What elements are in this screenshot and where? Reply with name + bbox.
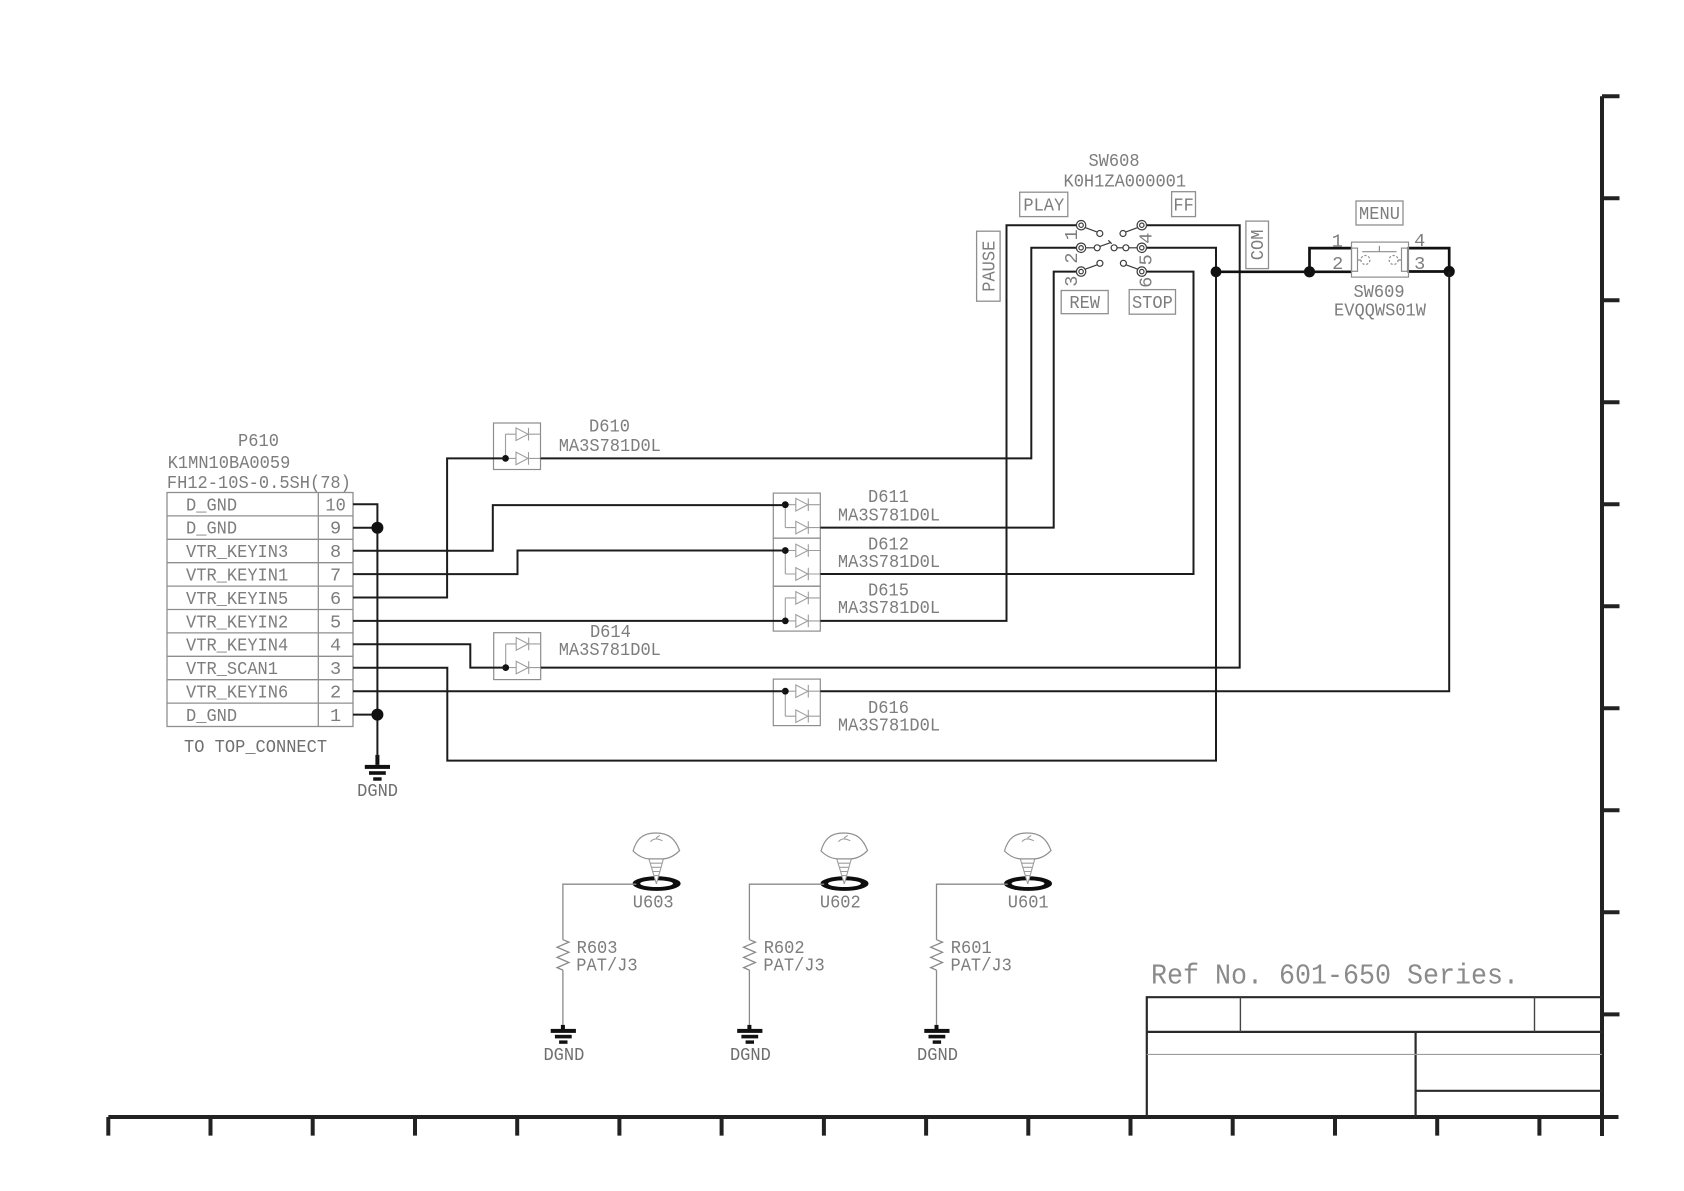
svg-text:U603: U603 (633, 893, 674, 914)
svg-text:VTR_KEYIN4: VTR_KEYIN4 (186, 636, 288, 657)
wire D610 output to SW608 row2 left (541, 248, 1077, 459)
resistor R602 PAT/J3 (744, 938, 825, 977)
svg-text:2: 2 (330, 683, 341, 704)
wire SW609 pin4 loop (1408, 248, 1450, 271)
junction node SW609 left (1304, 266, 1315, 277)
SW609 contact left (1361, 256, 1370, 265)
ground DGND below R601 (917, 1025, 958, 1066)
wire DGND trunk (376, 528, 378, 757)
border bottom tick marks (108, 1117, 1539, 1136)
wire D614 output to SW608 row1 right (541, 225, 1240, 667)
svg-text:4: 4 (1136, 233, 1157, 244)
switch SW609 body (1352, 242, 1409, 277)
label box STOP (1129, 290, 1175, 315)
wire pin1 stub (353, 714, 377, 716)
border right tick marks (1602, 96, 1620, 1014)
svg-text:TO TOP_CONNECT: TO TOP_CONNECT (184, 737, 327, 758)
svg-text:MENU: MENU (1359, 204, 1400, 225)
wire COM line to SW609 pin2 (1216, 270, 1352, 273)
SW608 pole row2 contacts and wiper (1076, 240, 1146, 252)
svg-text:3: 3 (330, 659, 341, 680)
wire pin6 VTR_KEYIN5 to D610 (353, 458, 506, 597)
svg-text:5: 5 (330, 612, 341, 633)
diode D616 MA3S781D0L dual diode pack (773, 679, 940, 736)
svg-text:1: 1 (330, 706, 341, 727)
junction node SW609 right (1444, 266, 1455, 277)
diode D615 MA3S781D0L dual diode pack (773, 581, 940, 631)
junction node pin9 (371, 522, 383, 534)
ground DGND below P610 (357, 755, 398, 802)
svg-text:K0H1ZA000001: K0H1ZA000001 (1064, 171, 1187, 192)
wire D611 output to SW608 row3 left (820, 272, 1076, 528)
label box COM (1246, 221, 1269, 269)
wire U603 to R603 (563, 884, 636, 1025)
svg-text:6: 6 (330, 589, 341, 610)
label box FF (1172, 192, 1196, 217)
svg-text:2: 2 (1332, 254, 1343, 275)
wire pin2 VTR_KEYIN6 to D616 (353, 690, 785, 692)
SW609 contact right (1389, 256, 1398, 265)
LED U602 (820, 833, 869, 914)
svg-text:MA3S781D0L: MA3S781D0L (838, 505, 940, 526)
svg-text:MA3S781D0L: MA3S781D0L (838, 715, 940, 736)
resistor R603 PAT/J3 (557, 938, 638, 977)
svg-text:SW608: SW608 (1088, 151, 1139, 172)
svg-text:FH12-10S-0.5SH(78): FH12-10S-0.5SH(78) (167, 473, 351, 494)
LED U603 (633, 833, 681, 914)
svg-text:MA3S781D0L: MA3S781D0L (838, 598, 940, 619)
diode D612 MA3S781D0L dual diode pack (773, 534, 940, 586)
connector P610 table outline (167, 493, 353, 727)
svg-text:1: 1 (1062, 229, 1083, 240)
wire pin8 VTR_KEYIN3 to D611 (353, 505, 785, 551)
svg-text:U602: U602 (820, 893, 861, 914)
wire pin5 VTR_KEYIN2 to D615 (353, 620, 785, 622)
svg-text:MA3S781D0L: MA3S781D0L (559, 436, 661, 457)
svg-text:VTR_KEYIN5: VTR_KEYIN5 (186, 589, 288, 610)
svg-text:PLAY: PLAY (1023, 196, 1064, 217)
svg-text:5: 5 (1136, 254, 1157, 265)
svg-text:1: 1 (1332, 231, 1343, 252)
wire SW609 pin3 stub (1408, 270, 1450, 273)
svg-text:MA3S781D0L: MA3S781D0L (838, 552, 940, 573)
svg-text:VTR_KEYIN6: VTR_KEYIN6 (186, 683, 288, 704)
svg-text:U601: U601 (1008, 893, 1049, 914)
svg-text:Ref No. 601-650 Series.: Ref No. 601-650 Series. (1151, 959, 1519, 992)
svg-text:PAT/J3: PAT/J3 (951, 956, 1012, 977)
svg-text:DGND: DGND (543, 1045, 584, 1066)
junction node pin1 (371, 709, 383, 721)
svg-text:P610: P610 (238, 431, 279, 452)
wire pin9 stub (353, 527, 377, 529)
svg-text:COM: COM (1248, 230, 1269, 261)
svg-text:EVQQWS01W: EVQQWS01W (1334, 300, 1427, 321)
wire pin3 VTR_SCAN1 to COM node (353, 272, 1216, 761)
svg-text:VTR_KEYIN3: VTR_KEYIN3 (186, 542, 288, 563)
svg-text:4: 4 (330, 636, 341, 657)
svg-text:DGND: DGND (917, 1045, 958, 1066)
svg-text:PAT/J3: PAT/J3 (763, 956, 824, 977)
svg-text:10: 10 (325, 495, 345, 516)
border bottom edge (108, 1115, 1618, 1119)
wire U602 to R602 (749, 884, 824, 1025)
wire pin10 to ground node (353, 504, 377, 528)
wire SW609 pin1 loop (1310, 248, 1352, 272)
svg-text:MA3S781D0L: MA3S781D0L (559, 640, 661, 661)
SW608 pole row3 contacts (1076, 260, 1146, 276)
resistor R601 PAT/J3 (931, 938, 1012, 977)
svg-text:VTR_KEYIN1: VTR_KEYIN1 (186, 566, 288, 587)
label box PAUSE (977, 231, 1001, 301)
wire D616 output to SW609 right node (820, 272, 1449, 692)
svg-text:D_GND: D_GND (186, 706, 237, 727)
LED U601 (1004, 833, 1052, 914)
svg-text:FF: FF (1173, 195, 1193, 216)
svg-text:D_GND: D_GND (186, 519, 237, 540)
svg-text:DGND: DGND (357, 781, 398, 802)
svg-text:3: 3 (1414, 254, 1425, 275)
svg-text:VTR_KEYIN2: VTR_KEYIN2 (186, 612, 288, 633)
wire U601 to R601 (937, 884, 1008, 1025)
ground DGND below R603 (543, 1025, 584, 1066)
SW608 pole row1 contacts (1076, 221, 1146, 237)
wire D612 output to SW608 row3 right (820, 272, 1193, 574)
diode D611 MA3S781D0L dual diode pack (773, 487, 940, 538)
svg-text:REW: REW (1069, 293, 1100, 314)
border right edge (1600, 96, 1604, 1136)
svg-text:D_GND: D_GND (186, 495, 237, 516)
diode D610 MA3S781D0L dual diode pack (494, 417, 661, 470)
wire pin7 VTR_KEYIN1 to D612 (353, 551, 785, 575)
svg-text:8: 8 (330, 542, 341, 563)
svg-text:VTR_SCAN1: VTR_SCAN1 (186, 659, 278, 680)
diode D614 MA3S781D0L dual diode pack (494, 622, 661, 679)
svg-text:PAT/J3: PAT/J3 (576, 956, 637, 977)
svg-text:3: 3 (1062, 276, 1083, 287)
wire D615 output to SW608 row1 left (820, 225, 1076, 621)
ground DGND below R602 (730, 1025, 771, 1066)
title block frame (1147, 997, 1602, 1117)
label box MENU (1356, 201, 1403, 225)
SW609 actuator (1362, 246, 1396, 252)
svg-text:K1MN10BA0059: K1MN10BA0059 (168, 453, 291, 474)
svg-text:DGND: DGND (730, 1045, 771, 1066)
svg-text:2: 2 (1062, 252, 1083, 263)
junction node COM tee (1211, 266, 1222, 277)
svg-text:7: 7 (330, 566, 341, 587)
svg-text:4: 4 (1414, 231, 1425, 252)
label box REW (1061, 291, 1108, 315)
svg-text:9: 9 (330, 519, 341, 540)
wire pin4 VTR_KEYIN4 to D614 (353, 644, 506, 667)
svg-text:STOP: STOP (1132, 293, 1173, 314)
label box PLAY (1020, 192, 1068, 216)
wire SW608 row2 right to COM node (1147, 248, 1216, 272)
svg-text:6: 6 (1136, 277, 1157, 288)
svg-text:PAUSE: PAUSE (979, 241, 1000, 292)
svg-text:D610: D610 (589, 417, 630, 438)
